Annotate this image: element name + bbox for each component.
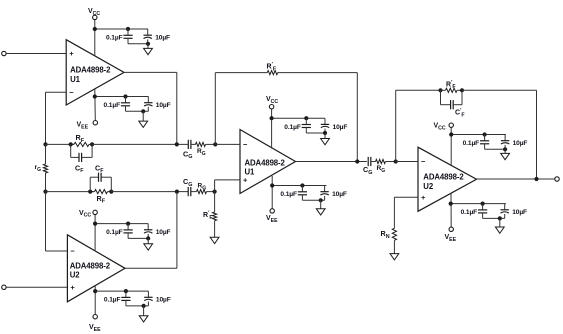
- wire U1A output: [124, 72, 177, 144]
- capacitor CF (upper, parallel with RF): [71, 144, 92, 174]
- decoupling caps at U1A VEE (0.1uF, 10uF) with ground: [93, 94, 171, 127]
- node junction rG top / feedback line 1: [43, 142, 47, 146]
- svg-text:+: +: [421, 193, 426, 202]
- svg-text:ADA4898-2: ADA4898-2: [245, 159, 286, 168]
- svg-text:U1: U1: [245, 168, 256, 177]
- svg-text:+: +: [70, 283, 75, 292]
- op-amp U1B ADA4898-2 (middle): [240, 130, 296, 194]
- node VIN+ input terminal: [2, 51, 6, 55]
- power VEE terminal U2A: [89, 286, 101, 333]
- svg-text:10µF: 10µF: [513, 140, 528, 147]
- decoupling caps at U1B VEE (0.1uF, 10uF) with ground: [270, 183, 347, 215]
- wire U2B feedback top: [462, 90, 537, 179]
- power VCC terminal U1B: [266, 96, 278, 149]
- node U1B inverting input junction: [213, 142, 240, 146]
- decoupling caps C at U1A VCC (0.1uF, 10uF) with ground: [93, 27, 170, 55]
- svg-text:0.1µF: 0.1µF: [463, 140, 480, 147]
- svg-text:ADA4898-2: ADA4898-2: [70, 66, 111, 75]
- resistor RG (lower series): [191, 183, 215, 194]
- power VCC terminal U2B: [434, 123, 454, 166]
- svg-text:10µF: 10µF: [156, 297, 171, 304]
- wire U2A output: [125, 192, 177, 269]
- svg-text:0.1µF: 0.1µF: [461, 209, 478, 216]
- svg-text:10µF: 10µF: [332, 191, 347, 198]
- capacitor CG (lower series): [183, 177, 192, 196]
- wire U2B feedback riser: [396, 90, 441, 161]
- resistor R'F (U1B feedback): [215, 62, 357, 162]
- op-amp U2A ADA4898-2 (bottom left): [67, 235, 125, 302]
- decoupling caps at U2A VCC (0.1uF, 10uF) with ground: [93, 222, 171, 251]
- power VEE terminal U1A: [77, 89, 98, 131]
- capacitor C'F (parallel with R'F): [441, 90, 465, 118]
- power VEE terminal U2B: [445, 193, 457, 243]
- svg-text:+: +: [69, 49, 74, 58]
- resistor R'F (U1B noninverting bias): [203, 192, 217, 238]
- svg-text:ADA4898-2: ADA4898-2: [70, 262, 111, 271]
- svg-text:10µF: 10µF: [155, 35, 170, 42]
- svg-text:0.1µF: 0.1µF: [106, 229, 123, 236]
- wire feedback row2 left: [46, 191, 95, 193]
- wire feedback row1 middle: [92, 142, 188, 146]
- resistor RG (upper series): [191, 142, 215, 157]
- svg-text:−: −: [421, 157, 426, 166]
- op-amp U2B ADA4898-2 (right): [418, 147, 477, 211]
- capacitor CF (lower, parallel with RF): [90, 163, 111, 191]
- decoupling caps at U2B VCC (0.1uF, 10uF) with ground: [449, 132, 527, 159]
- capacitor CG (upper series): [183, 140, 192, 160]
- resistor RN: [381, 228, 397, 253]
- resistor rG: [35, 144, 48, 191]
- wire input+ to U1A noninverting input: [6, 53, 66, 55]
- ground at R'F (U1B): [210, 237, 219, 243]
- capacitor CG (output series): [363, 157, 372, 176]
- resistor RF (upper): [69, 133, 95, 146]
- resistor RF (lower): [88, 190, 113, 205]
- ground at RN: [390, 254, 399, 260]
- power VEE terminal U1B: [266, 176, 278, 224]
- power VCC terminal U1A: [88, 8, 100, 55]
- node VIN- input terminal: [2, 285, 6, 289]
- svg-text:0.1µF: 0.1µF: [284, 124, 301, 131]
- wire U2B output: [477, 177, 555, 181]
- svg-text:U2: U2: [423, 182, 434, 191]
- power VCC terminal U2A: [79, 210, 97, 251]
- svg-text:−: −: [243, 140, 248, 149]
- svg-text:0.1µF: 0.1µF: [104, 297, 121, 304]
- svg-text:10µF: 10µF: [156, 102, 171, 109]
- svg-text:0.1µF: 0.1µF: [104, 102, 121, 109]
- svg-text:0.1µF: 0.1µF: [106, 35, 123, 42]
- node junction rG bottom / feedback line 2: [43, 190, 47, 194]
- decoupling caps at U2A VEE (0.1uF, 10uF) with ground: [93, 289, 171, 322]
- svg-text:+: +: [243, 176, 248, 185]
- node VOUT output terminal: [555, 177, 559, 181]
- wire U2A inverting input: [46, 192, 68, 251]
- wire U1B output: [296, 159, 367, 163]
- resistor RG (output series): [371, 159, 396, 174]
- svg-text:0.1µF: 0.1µF: [280, 191, 297, 198]
- svg-text:10µF: 10µF: [333, 124, 348, 131]
- svg-text:10µF: 10µF: [512, 209, 527, 216]
- svg-text:10µF: 10µF: [156, 229, 171, 236]
- svg-text:U1: U1: [70, 75, 81, 84]
- wire U2B noninverting input: [394, 197, 418, 228]
- svg-text:−: −: [69, 88, 74, 97]
- wire U1A inverting input: [46, 92, 67, 144]
- op-amp U1A ADA4898-2 (top left): [66, 40, 124, 105]
- wire input- to U2A noninverting input: [6, 286, 67, 288]
- decoupling caps at U2B VEE (0.1uF, 10uF) with ground: [449, 202, 527, 234]
- wire feedback row1 left: [46, 143, 75, 145]
- svg-text:−: −: [70, 247, 75, 256]
- svg-text:ADA4898-2: ADA4898-2: [423, 173, 464, 182]
- node U1B noninverting input junction: [213, 180, 241, 194]
- decoupling caps at U1B VCC (0.1uF, 10uF) with ground: [270, 116, 348, 145]
- node U2B inverting input junction: [394, 159, 418, 163]
- wire feedback row2 middle: [111, 190, 188, 194]
- resistor R'F (U2B feedback): [438, 80, 464, 93]
- svg-text:U2: U2: [70, 271, 81, 280]
